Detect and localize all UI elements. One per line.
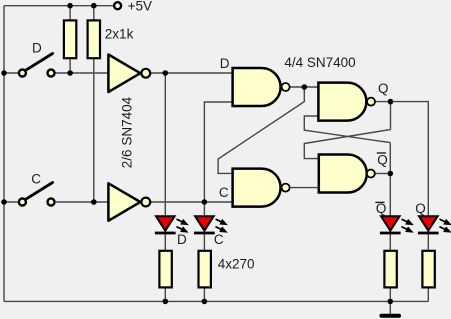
junction dot R1 D line: [67, 70, 73, 76]
resistor R2 (1k): [88, 20, 100, 58]
svg-text:Q: Q: [378, 81, 389, 96]
nand gate G3 output bubble: [367, 98, 375, 106]
wire: D line inverter U1 output to gate G1 upper input: [150, 72, 233, 74]
svg-text:D: D: [32, 41, 42, 56]
svg-text:4/4 SN7400: 4/4 SN7400: [284, 55, 355, 70]
wire: C feedback column to gate G1 lower input: [204, 102, 233, 202]
wire: C line left rail to switch C left contact: [4, 201, 22, 203]
junction dot bottom rail ground: [388, 299, 394, 305]
junction dot G1 output node: [302, 84, 308, 90]
switch C contact left: [19, 199, 26, 206]
switch D lever: [26, 54, 53, 71]
wire: top +5V rail: [4, 5, 113, 7]
resistor R4 (270, LED C): [199, 251, 211, 288]
wire: LED C column: [203, 202, 205, 301]
nand gate G3: [318, 83, 366, 121]
svg-text:2/6 SN7404: 2/6 SN7404: [120, 96, 135, 168]
LED Qbar triangle: [381, 216, 400, 230]
junction dot R2 C line: [91, 199, 97, 205]
wire: ground stub: [389, 301, 391, 314]
LED Qbar cathode bar: [380, 232, 401, 235]
wire: cross diagonal Qbar to gate G3 lower input: [304, 116, 390, 143]
wire: D line left rail to switch D left contact: [4, 72, 22, 74]
resistor R5 (270, LED Qbar): [384, 251, 396, 288]
svg-text:C: C: [219, 185, 229, 200]
inverter U1 (7404) triangle: [108, 55, 140, 93]
wire: LED D column: [164, 73, 166, 301]
junction dot bottom rail LED C: [202, 299, 208, 305]
inverter U2 output bubble: [141, 198, 150, 207]
svg-text:C: C: [214, 232, 224, 247]
ground symbol: [379, 314, 401, 318]
wire: R2 column (top rail to C line): [93, 6, 95, 202]
wire: C line switch C right contact to gate G2 lower input: [51, 201, 233, 203]
LED C arrows: [216, 219, 226, 232]
LED Q cathode bar: [418, 232, 439, 235]
wire: gate G2 output to gate G4 lower input: [290, 187, 319, 189]
switch C contact right: [48, 199, 55, 206]
wire: Q node feedback - vertical below Q junction: [390, 102, 392, 130]
nand gate G2: [233, 169, 281, 207]
wire: Qbar column through LED to bottom rail: [389, 143, 391, 302]
svg-text:+5V: +5V: [128, 0, 152, 14]
nand gate G4 output bubble: [367, 170, 375, 178]
junction dot left rail C line: [1, 199, 7, 205]
svg-text:4x270: 4x270: [218, 257, 255, 272]
nand gate G2 output bubble: [282, 184, 290, 192]
LED C triangle: [195, 216, 214, 230]
resistor R3 (270, LED D): [159, 251, 171, 288]
junction dot Qbar node: [388, 171, 394, 177]
junction dot left rail D line: [1, 70, 7, 76]
svg-text:D: D: [220, 56, 230, 71]
wire: gate G4 output Qbar: [375, 173, 390, 175]
switch D contact right: [48, 70, 55, 77]
wire: gate G3 output Q to right corner: [375, 102, 428, 302]
resistor R1 (1k): [64, 20, 76, 58]
LED D arrows: [176, 219, 186, 232]
overline for Qbar (LED): [375, 201, 384, 203]
nand gate G1 output bubble: [282, 83, 290, 91]
junction dot Q node: [388, 99, 394, 105]
junction dot LED C column C line: [202, 199, 208, 205]
svg-text:Q: Q: [376, 201, 387, 216]
LED Q triangle: [419, 216, 438, 230]
junction dot bottom rail LED D: [163, 299, 169, 305]
LED D cathode bar: [155, 232, 176, 235]
svg-text:Q: Q: [415, 201, 426, 216]
wire: G1 output down-diagonal to gate G2 upper input: [218, 87, 304, 173]
LED Q arrows: [439, 219, 449, 232]
inverter U2 (7404) triangle: [108, 183, 140, 221]
switch C lever: [26, 183, 53, 200]
LED Qbar arrows: [401, 219, 411, 232]
LED C cathode bar: [194, 232, 215, 235]
wire: D line switch D right contact to inverter U1 input: [51, 72, 109, 74]
wire: bottom rail: [4, 300, 428, 302]
LED D triangle: [156, 216, 175, 230]
switch D contact left: [19, 70, 26, 77]
wire: R1 column (top rail to D line): [69, 6, 71, 73]
junction dot LED D column D line: [163, 70, 169, 76]
nand gate G1: [233, 68, 281, 106]
svg-text:2x1k: 2x1k: [105, 27, 134, 42]
resistor R6 (270, LED Q): [422, 251, 434, 288]
svg-text:Q: Q: [377, 153, 388, 168]
wire: gate G1 output to gate G3 upper input: [290, 86, 319, 88]
nand gate G4: [319, 155, 367, 193]
inverter U1 output bubble: [141, 69, 150, 78]
+5V terminal: [114, 2, 121, 9]
svg-text:D: D: [177, 232, 187, 247]
junction dot top rail R2: [91, 3, 97, 9]
wire: cross diagonal Q to gate G4 upper input: [304, 130, 390, 159]
wire: left vertical rail: [3, 6, 5, 302]
svg-text:C: C: [31, 171, 41, 186]
junction dot top rail R1: [67, 3, 73, 9]
overline for Qbar (G4 output): [377, 152, 386, 154]
